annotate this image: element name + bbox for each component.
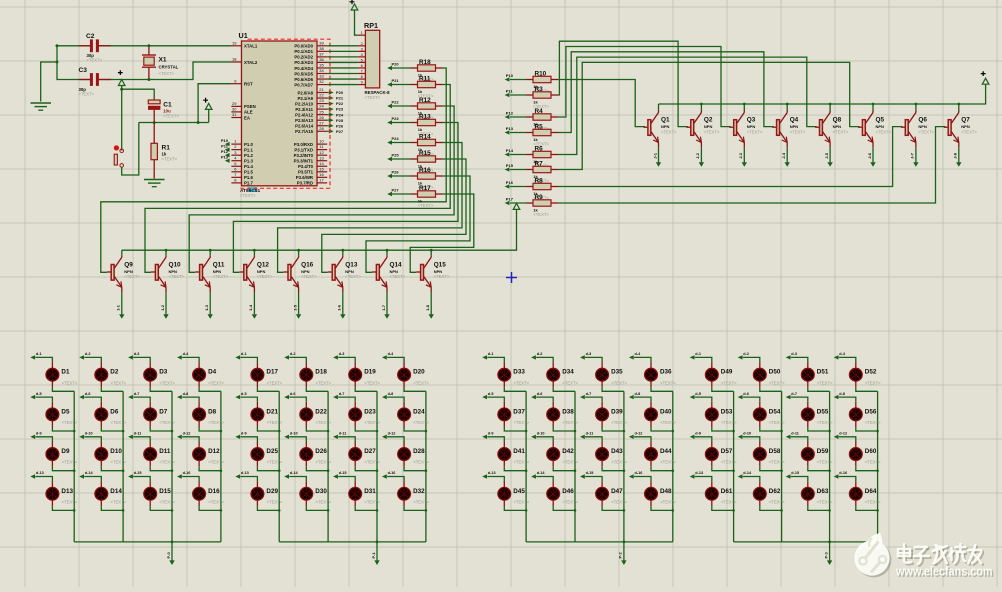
- svg-text:d-8: d-8: [635, 392, 641, 396]
- svg-text:d-6: d-6: [537, 392, 543, 396]
- svg-text:16: 16: [319, 172, 324, 177]
- svg-text:35: 35: [319, 63, 324, 68]
- svg-text:J-6: J-6: [867, 152, 872, 159]
- wire: D8 cathode jog to column: [199, 427, 221, 431]
- LED D5: [35, 397, 52, 402]
- node: bus junction at Q10 collector: [165, 249, 168, 252]
- svg-text:P11: P11: [506, 88, 514, 93]
- svg-text:<TEXT>: <TEXT>: [961, 129, 977, 134]
- svg-text:P21: P21: [392, 78, 400, 83]
- svg-text:D29: D29: [266, 488, 278, 495]
- svg-text:Q2: Q2: [704, 117, 713, 124]
- svg-text:1-2: 1-2: [160, 304, 165, 311]
- wire: D20 cathode jog to column: [404, 387, 426, 391]
- svg-text:P2.4/A12: P2.4/A12: [295, 112, 314, 117]
- svg-text:39: 39: [319, 40, 324, 45]
- transistor Q13: [328, 271, 333, 273]
- LED D42: [536, 437, 553, 442]
- wire: Q10 emitter to terminal: [165, 292, 167, 314]
- wire: D48 cathode jog to column: [651, 506, 673, 510]
- svg-text:d-16: d-16: [839, 471, 847, 475]
- svg-text:<TEXT>: <TEXT>: [240, 193, 256, 198]
- svg-text:1-6: 1-6: [337, 304, 342, 311]
- terminal Q12 emitter (net 1-4): [252, 314, 257, 319]
- svg-text:d-6: d-6: [290, 392, 296, 396]
- terminal P11 (resistor side): [505, 93, 510, 97]
- LED D36: [634, 357, 651, 362]
- wire: C3 left lead up to C2 net: [57, 46, 91, 80]
- LED D33: [487, 357, 504, 362]
- svg-text:J-3: J-3: [738, 152, 743, 159]
- svg-text:d-6: d-6: [743, 392, 749, 396]
- wire: D39 cathode jog to column: [602, 427, 624, 431]
- svg-text:d-7: d-7: [339, 392, 345, 396]
- svg-text:<TEXT>: <TEXT>: [817, 420, 833, 425]
- svg-text:P3.4/T0: P3.4/T0: [298, 164, 314, 169]
- wire: net P20 to R18: [392, 67, 411, 69]
- svg-text:P1.5: P1.5: [244, 170, 253, 175]
- LED D56: [839, 397, 856, 402]
- svg-text:d-14: d-14: [537, 471, 546, 475]
- resistor R3: [526, 94, 533, 96]
- svg-text:D58: D58: [769, 448, 781, 455]
- svg-text:Q4: Q4: [790, 117, 799, 124]
- wire: Q4 emitter to terminal: [786, 147, 788, 162]
- wire: Q15 emitter to terminal: [430, 292, 432, 314]
- power terminal (VCC) for RST pull: [205, 103, 212, 109]
- wire: Q10 collector to bus: [165, 250, 167, 255]
- LED D7: [133, 397, 150, 402]
- svg-text:<TEXT>: <TEXT>: [111, 380, 127, 385]
- wire: Q15 collector to bus: [430, 250, 432, 255]
- svg-text:P3.2/INT0: P3.2/INT0: [294, 153, 314, 158]
- resistor R13: [411, 122, 418, 124]
- LED D4: [182, 357, 199, 362]
- svg-text:EA: EA: [244, 115, 250, 120]
- svg-text:D21: D21: [266, 408, 278, 415]
- power terminal (VCC) top right: [982, 78, 989, 84]
- U1 right pins P2.0/A8-P2.7/A15 with terminals: [317, 92, 327, 94]
- wire: D12 cathode jog to column: [199, 467, 221, 471]
- wire: D29 cathode jog to column: [257, 506, 279, 510]
- svg-text:<TEXT>: <TEXT>: [611, 380, 627, 385]
- LED D16: [182, 477, 199, 482]
- LED D19: [338, 357, 355, 362]
- transistor Q10: [151, 271, 156, 273]
- svg-text:<TEXT>: <TEXT>: [364, 460, 380, 465]
- node: bus junction at Q4 collector: [786, 103, 789, 106]
- svg-text:<TEXT>: <TEXT>: [159, 499, 175, 504]
- svg-text:P0.0/AD0: P0.0/AD0: [294, 44, 313, 49]
- wire: block 4 bus output: [829, 542, 831, 561]
- terminal Q13 emitter (net 1-6): [340, 314, 345, 319]
- svg-text:d-1: d-1: [241, 352, 247, 356]
- LED D55: [791, 397, 808, 402]
- node: bus junction at Q16 collector: [297, 249, 300, 252]
- svg-text:J-2: J-2: [695, 152, 700, 159]
- svg-text:D16: D16: [208, 488, 220, 495]
- terminal P10 (resistor side): [505, 77, 510, 81]
- LED D28: [387, 437, 404, 442]
- svg-text:<TEXT>: <TEXT>: [208, 380, 224, 385]
- svg-text:Q6: Q6: [918, 117, 927, 124]
- wire: Q1 collector to bus: [658, 104, 660, 111]
- wire: Q8 collector to bus: [829, 104, 831, 111]
- svg-text:<TEXT>: <TEXT>: [62, 420, 78, 425]
- wire: D49 cathode jog to column: [712, 387, 734, 391]
- svg-text:D17: D17: [266, 369, 278, 376]
- svg-text:d-13: d-13: [488, 471, 496, 475]
- svg-text:12: 12: [319, 150, 324, 155]
- svg-text:X1: X1: [159, 57, 167, 64]
- svg-text:D2: D2: [110, 369, 119, 376]
- svg-text:R9: R9: [535, 194, 544, 201]
- svg-text:19: 19: [232, 40, 237, 45]
- power terminal (VCC) on XTAL2 wire / reset branch: [118, 80, 125, 86]
- LED D52: [839, 357, 856, 362]
- svg-text:D24: D24: [413, 408, 425, 415]
- svg-text:<TEXT>: <TEXT>: [364, 499, 380, 504]
- svg-text:d-8: d-8: [388, 392, 394, 396]
- svg-text:R1: R1: [162, 145, 171, 152]
- svg-text:<TEXT>: <TEXT>: [213, 274, 229, 279]
- wire: D57 cathode jog to column: [712, 467, 734, 471]
- wire: net P22 to R12: [392, 105, 411, 107]
- svg-text:Q5: Q5: [876, 117, 885, 124]
- svg-text:<TEXT>: <TEXT>: [865, 499, 881, 504]
- svg-text:d-4: d-4: [183, 352, 190, 356]
- wire: D37 cathode jog to column: [504, 427, 526, 431]
- wire: D5 cathode jog to column: [52, 427, 74, 431]
- resistor R5: [526, 132, 533, 134]
- svg-text:25: 25: [319, 109, 324, 114]
- wire: LED column 4 vertical (block 3): [672, 391, 674, 542]
- svg-text:27: 27: [319, 120, 324, 125]
- svg-text:<TEXT>: <TEXT>: [865, 380, 881, 385]
- wire: D36 cathode jog to column: [651, 387, 673, 391]
- wire: D32 cathode jog to column: [404, 506, 426, 510]
- svg-text:<TEXT>: <TEXT>: [390, 274, 406, 279]
- node: bus junction at Q15 collector: [430, 249, 433, 252]
- svg-text:P1.1: P1.1: [244, 147, 253, 152]
- terminal P16 (resistor side): [505, 184, 510, 188]
- wire: D41 cathode jog to column: [504, 467, 526, 471]
- terminal Q6 emitter (net J-7): [913, 162, 918, 167]
- svg-text:P3.7/RD: P3.7/RD: [297, 181, 313, 186]
- svg-text:<TEXT>: <TEXT>: [876, 129, 892, 134]
- svg-text:C2: C2: [86, 33, 95, 40]
- wire: R10 to Q1 base: [558, 80, 645, 127]
- svg-text:Q10: Q10: [169, 261, 182, 268]
- terminal P26 (resistor side): [387, 174, 392, 178]
- svg-text:4: 4: [361, 53, 363, 57]
- svg-text:D64: D64: [865, 488, 877, 495]
- LED D40: [634, 397, 651, 402]
- node: bus junction at Q11 collector: [209, 249, 212, 252]
- wire: R3 to transistor base (top staircase): [558, 41, 688, 126]
- svg-text:P20: P20: [336, 90, 344, 95]
- LED D15: [133, 477, 150, 482]
- wire: R11 to Q10 base (staircase): [145, 85, 450, 273]
- svg-text:d-7: d-7: [586, 392, 592, 396]
- svg-text:d-5: d-5: [488, 392, 494, 396]
- resistor pack RP1: [365, 30, 379, 88]
- U1 P1.0-P1.7 pins with terminals: [231, 143, 241, 145]
- wire: D4 cathode jog to column: [199, 387, 221, 391]
- svg-text:8: 8: [361, 75, 363, 79]
- svg-text:26: 26: [319, 115, 324, 120]
- svg-text:D60: D60: [865, 448, 877, 455]
- svg-text:Q9: Q9: [124, 261, 133, 268]
- LED D63: [791, 477, 808, 482]
- svg-text:d-13: d-13: [36, 471, 44, 475]
- node: bus junction at Q14 collector: [386, 249, 389, 252]
- wire: XTAL2 net C3 to U1: [99, 62, 232, 80]
- resistor R8: [526, 186, 533, 188]
- terminal Q7 emitter (net J-8): [956, 162, 961, 167]
- svg-text:P13: P13: [506, 126, 514, 131]
- capacitor C3: [79, 79, 91, 81]
- svg-text:<TEXT>: <TEXT>: [704, 129, 720, 134]
- svg-text:<TEXT>: <TEXT>: [769, 460, 785, 465]
- svg-text:D8: D8: [208, 408, 217, 415]
- wire: R8 to Q6 base: [558, 127, 902, 187]
- wire: D25 cathode jog to column: [257, 467, 279, 471]
- svg-text:P13: P13: [221, 155, 229, 160]
- svg-text:D44: D44: [660, 448, 672, 455]
- terminal P10: [225, 142, 230, 146]
- svg-text:RST: RST: [244, 82, 253, 87]
- wire: LED column 3 vertical (block 2): [376, 391, 378, 542]
- svg-text:<TEXT>: <TEXT>: [562, 460, 578, 465]
- svg-text:P27: P27: [336, 129, 344, 134]
- terminal Q11 emitter (net 1-3): [208, 314, 213, 319]
- LED D37: [487, 397, 504, 402]
- svg-text:Q3: Q3: [747, 117, 756, 124]
- wire: VCC branch to C1: [122, 89, 155, 100]
- terminal Q15 emitter (net 1-8): [429, 314, 434, 319]
- wire: block 3 bus output: [623, 542, 625, 561]
- svg-text:d-1: d-1: [488, 352, 494, 356]
- wire: D26 cathode jog to column: [306, 467, 328, 471]
- svg-text:P0.5/AD5: P0.5/AD5: [294, 71, 313, 76]
- LED D50: [743, 357, 760, 362]
- LED D14: [84, 477, 101, 482]
- svg-text:P2.3/A11: P2.3/A11: [295, 107, 313, 112]
- svg-text:d-11: d-11: [134, 432, 142, 436]
- terminal P13: [225, 159, 230, 163]
- wire: LED column 1 vertical (block 2): [278, 391, 280, 542]
- svg-text:C3: C3: [79, 67, 88, 74]
- svg-text:1-7: 1-7: [381, 304, 386, 311]
- svg-text:d-1: d-1: [36, 352, 42, 356]
- LED D39: [585, 397, 602, 402]
- LED D1: [35, 357, 52, 362]
- svg-text:<TEXT>: <TEXT>: [267, 420, 283, 425]
- op-amp U1 microcontroller AT89C51 body: [242, 41, 318, 186]
- transistor Q1: [644, 126, 649, 128]
- resistor R12: [411, 105, 418, 107]
- terminal Q9 emitter (net 1-1): [119, 314, 124, 319]
- wire: D43 cathode jog to column: [602, 467, 624, 471]
- svg-text:<TEXT>: <TEXT>: [514, 420, 530, 425]
- svg-text:P10: P10: [221, 138, 229, 143]
- svg-text:P0.7/AD7: P0.7/AD7: [294, 82, 313, 87]
- svg-text:Q12: Q12: [257, 261, 270, 268]
- U1 part value AT89C51 (with selection highlight): [248, 187, 257, 192]
- wire: LED column 3 vertical (block 1): [171, 391, 173, 542]
- svg-text:2: 2: [361, 42, 363, 46]
- svg-text:d-16: d-16: [388, 471, 396, 475]
- svg-text:P21: P21: [336, 96, 344, 101]
- wire: D51 cathode jog to column: [808, 387, 830, 391]
- LED D30: [289, 477, 306, 482]
- wire: net P23 to R13: [392, 122, 411, 124]
- svg-text:D46: D46: [562, 488, 574, 495]
- svg-text:d-10: d-10: [537, 432, 545, 436]
- svg-text:D9: D9: [61, 448, 70, 455]
- wire: LED column 2 vertical (block 2): [327, 391, 329, 542]
- svg-text:<TEXT>: <TEXT>: [345, 274, 361, 279]
- svg-text:D53: D53: [721, 408, 733, 415]
- wire: Q16 emitter to terminal: [298, 292, 300, 314]
- wire: R12 to Q11 base (staircase): [189, 106, 454, 272]
- svg-text:d-5: d-5: [36, 392, 42, 396]
- resistor R6: [526, 154, 533, 156]
- svg-text:D43: D43: [611, 448, 623, 455]
- wire: R5 to transistor base (top staircase): [558, 52, 774, 133]
- svg-text:D11: D11: [159, 448, 171, 455]
- wire: net P21 to R11: [392, 84, 411, 86]
- svg-text:1: 1: [361, 31, 363, 35]
- svg-text:P0.3/AD3: P0.3/AD3: [294, 60, 313, 65]
- svg-text:<TEXT>: <TEXT>: [62, 499, 78, 504]
- svg-text:D47: D47: [611, 488, 623, 495]
- svg-text:<TEXT>: <TEXT>: [660, 460, 676, 465]
- transistor Q12: [239, 271, 244, 273]
- svg-text:d-13: d-13: [695, 471, 703, 475]
- svg-text:<TEXT>: <TEXT>: [660, 380, 676, 385]
- svg-text:P2.7/A15: P2.7/A15: [295, 129, 314, 134]
- transistor Q9: [107, 271, 112, 273]
- svg-text:R11: R11: [419, 76, 431, 83]
- wire: D45 cathode jog to column: [504, 506, 526, 510]
- svg-text:U1: U1: [239, 31, 248, 40]
- svg-text:29: 29: [232, 101, 237, 106]
- svg-text:<TEXT>: <TEXT>: [918, 129, 934, 134]
- svg-text:<TEXT>: <TEXT>: [661, 129, 677, 134]
- resistor R1 (vertical): [153, 123, 155, 144]
- svg-text:d-16: d-16: [183, 471, 191, 475]
- wire: net P24 to R14: [392, 142, 411, 144]
- svg-text:<TEXT>: <TEXT>: [365, 95, 381, 100]
- svg-text:<TEXT>: <TEXT>: [514, 460, 530, 465]
- svg-text:R14: R14: [419, 134, 431, 141]
- svg-text:P17: P17: [506, 196, 514, 201]
- svg-text:D28: D28: [413, 448, 425, 455]
- wire: D9 cathode jog to column: [52, 467, 74, 471]
- wire: RST net: [139, 122, 209, 124]
- svg-text:d-12: d-12: [635, 432, 643, 436]
- terminal P22: [329, 101, 334, 105]
- svg-text:d-15: d-15: [134, 471, 142, 475]
- svg-text:<TEXT>: <TEXT>: [413, 420, 429, 425]
- svg-text:D42: D42: [562, 448, 574, 455]
- LED D44: [634, 437, 651, 442]
- wire: net P25 to R15: [392, 158, 411, 160]
- LED D17: [240, 357, 257, 362]
- RP1 pins 2-9 stubs: [358, 45, 366, 47]
- terminal P13 (resistor side): [505, 130, 510, 134]
- svg-text:<TEXT>: <TEXT>: [413, 380, 429, 385]
- svg-text:<TEXT>: <TEXT>: [124, 274, 140, 279]
- svg-text:D38: D38: [562, 408, 574, 415]
- wire: Q7 emitter to terminal: [958, 147, 960, 162]
- LED D64: [839, 477, 856, 482]
- wire: R18 to Q9 base (staircase): [101, 68, 446, 272]
- LED D43: [585, 437, 602, 442]
- svg-text:d-9: d-9: [36, 432, 42, 436]
- svg-text:<TEXT>: <TEXT>: [111, 420, 127, 425]
- wire: Q11 collector to bus: [209, 250, 211, 255]
- svg-text:30: 30: [232, 107, 237, 112]
- svg-text:J-8: J-8: [953, 152, 958, 159]
- svg-text:Q7: Q7: [961, 117, 970, 124]
- wire: Q7 collector to bus: [958, 104, 960, 111]
- terminal Q5 emitter (net J-6): [870, 162, 875, 167]
- wire: D38 cathode jog to column: [553, 427, 575, 431]
- svg-text:<TEXT>: <TEXT>: [162, 157, 178, 162]
- LED D60: [839, 437, 856, 442]
- svg-text:<TEXT>: <TEXT>: [159, 460, 175, 465]
- wire: D53 cathode jog to column: [712, 427, 734, 431]
- wire: D15 cathode jog to column: [150, 506, 172, 510]
- svg-text:<TEXT>: <TEXT>: [111, 460, 127, 465]
- wire: D16 cathode jog to column: [199, 506, 221, 510]
- terminal P24 (resistor side): [387, 140, 392, 144]
- wire: D61 cathode jog to column: [712, 506, 734, 510]
- LED D2: [84, 357, 101, 362]
- svg-text:P15: P15: [506, 163, 514, 168]
- svg-text:d-5: d-5: [695, 392, 701, 396]
- svg-text:<TEXT>: <TEXT>: [316, 420, 332, 425]
- wire: Q14 collector to bus: [386, 250, 388, 255]
- terminal P24: [329, 112, 334, 116]
- LED D18: [289, 357, 306, 362]
- svg-text:d-11: d-11: [339, 432, 347, 436]
- svg-text:<TEXT>: <TEXT>: [316, 460, 332, 465]
- svg-text:d-3: d-3: [791, 352, 797, 356]
- svg-text:D37: D37: [513, 408, 525, 415]
- svg-text:D41: D41: [513, 448, 525, 455]
- svg-text:XTAL2: XTAL2: [244, 60, 258, 65]
- transistor Q15: [416, 271, 421, 273]
- svg-text:D15: D15: [159, 488, 171, 495]
- svg-text:<TEXT>: <TEXT>: [660, 420, 676, 425]
- LED D8: [182, 397, 199, 402]
- LED D23: [338, 397, 355, 402]
- svg-text:P16: P16: [506, 180, 514, 185]
- svg-text:<TEXT>: <TEXT>: [413, 499, 429, 504]
- svg-text:<TEXT>: <TEXT>: [747, 129, 763, 134]
- svg-text:D40: D40: [660, 408, 672, 415]
- U1 left pins XTAL1 XTAL2 RST PSEN ALE EA: [231, 45, 241, 47]
- svg-text:P-1: P-1: [371, 552, 376, 559]
- terminal P25 (resistor side): [387, 157, 392, 161]
- wire: D17 cathode jog to column: [257, 387, 279, 391]
- svg-text:D18: D18: [315, 369, 327, 376]
- svg-text:D36: D36: [660, 369, 672, 376]
